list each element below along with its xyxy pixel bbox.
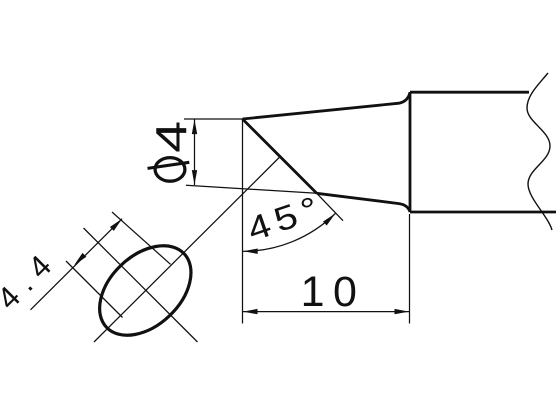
cylinder bottom edge xyxy=(410,211,556,214)
break (wavy) line xyxy=(527,73,552,230)
arrow 4.4 SW xyxy=(74,253,86,265)
vertical extension line below tip xyxy=(242,119,244,324)
phi4 dimension line xyxy=(194,119,196,185)
ellipse minor crosshair line xyxy=(84,228,198,342)
dimension label phi4 xyxy=(148,158,190,182)
4.4 extension line lower (tangent SW) xyxy=(66,261,123,318)
arrow phi4 bottom xyxy=(192,170,197,185)
arrow phi4 top xyxy=(192,120,197,135)
bevel edge thin extension xyxy=(317,193,343,220)
svg-text:4.4: 4.4 xyxy=(0,242,65,316)
phi symbol circle of diameter label xyxy=(155,158,185,182)
taper top edge with fillet to step xyxy=(243,92,411,119)
tip outline thick xyxy=(243,92,557,212)
phi4 top extension line xyxy=(184,118,243,120)
arrow 4.4 NE xyxy=(110,219,122,231)
svg-text:10: 10 xyxy=(301,268,366,316)
arrow 10 left xyxy=(243,309,258,314)
svg-text:45°: 45° xyxy=(242,187,329,249)
arrow arc upper xyxy=(323,214,335,226)
step vertical line xyxy=(409,92,412,212)
arrow arc bottom xyxy=(243,249,258,254)
right extension line at step xyxy=(409,214,411,324)
arrow 10 right xyxy=(395,309,410,314)
thin construction / dimension lines xyxy=(31,119,410,342)
svg-text:4: 4 xyxy=(147,121,196,153)
phi symbol bar xyxy=(148,162,190,168)
phi4 bottom extension line (taper bottom extended) xyxy=(186,185,317,193)
ellipse (bevel face view) xyxy=(82,228,208,352)
4.4 dimension line xyxy=(31,219,123,310)
taper bottom edge with fillet to step xyxy=(317,193,410,212)
cylinder top edge xyxy=(410,91,529,94)
bevel edge xyxy=(243,119,317,193)
45 degree arc xyxy=(243,214,336,252)
arrowheads xyxy=(74,120,409,315)
10 dimension line xyxy=(243,311,410,313)
4.4 extension line upper (tangent NE) xyxy=(112,212,171,264)
projection line (ellipse major axis) xyxy=(94,158,279,343)
